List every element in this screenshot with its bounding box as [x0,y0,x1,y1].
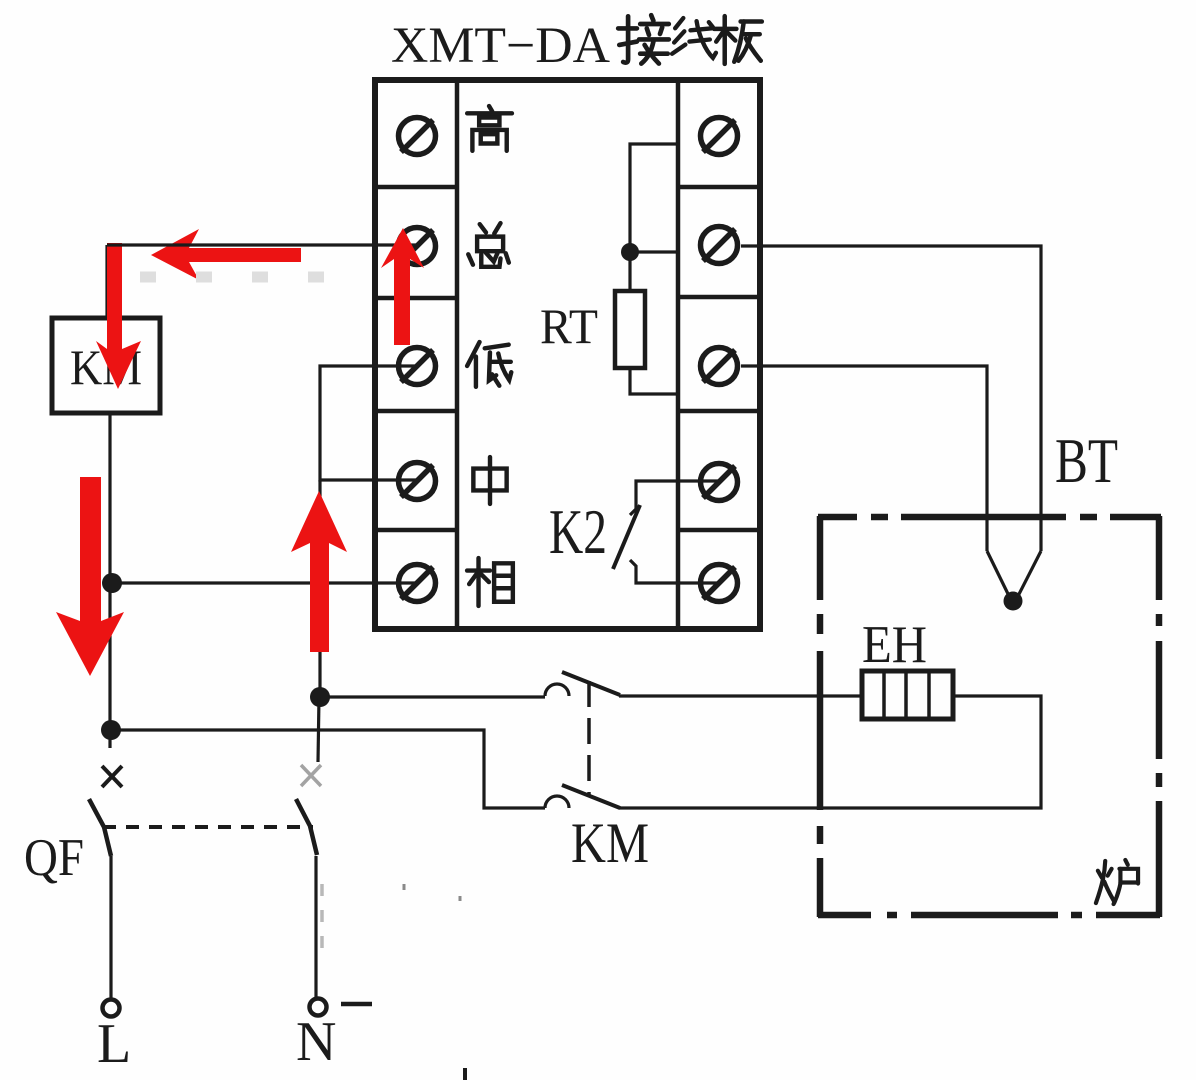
svg-text:RT: RT [540,298,598,354]
svg-text:L: L [97,1013,131,1075]
svg-text:QF: QF [24,829,84,887]
svg-text:KM: KM [571,812,649,875]
svg-text:XMT−DA: XMT−DA [391,18,610,74]
svg-text:EH: EH [862,616,927,674]
svg-text:K2: K2 [549,496,607,567]
svg-text:N: N [296,1011,336,1073]
svg-text:BT: BT [1055,425,1118,496]
